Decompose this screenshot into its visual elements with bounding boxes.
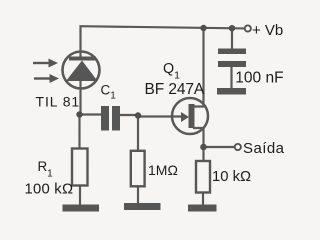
phototransistor cathode bar — [69, 57, 96, 61]
capacitor C1 plates — [101, 106, 109, 131]
ground under R1 — [63, 205, 100, 212]
light arrow 2 — [34, 74, 59, 83]
svg-text:1MΩ: 1MΩ — [148, 162, 178, 178]
wire Vb cap vertical — [231, 28, 233, 49]
wire source node to output — [204, 146, 235, 148]
node A junction dot — [76, 111, 82, 117]
wire drain vertical — [194, 28, 204, 107]
rail junction dot 2 — [229, 25, 235, 31]
ground under 10k — [188, 205, 217, 212]
capacitor 100nF plates — [218, 49, 246, 55]
svg-text:100 kΩ: 100 kΩ — [25, 182, 74, 198]
wire node A to C1 — [80, 113, 103, 115]
wire R1 to ground — [79, 185, 81, 205]
wire phototransistor to node A — [79, 81, 81, 115]
svg-text:Saída: Saída — [243, 140, 285, 157]
wire R2 to ground — [137, 187, 139, 204]
terminal +Vb open circle — [245, 25, 251, 31]
ground under 1M — [124, 203, 161, 210]
resistor R1 body — [72, 149, 88, 186]
wire node B to gate — [138, 115, 183, 117]
resistor 10k body — [196, 161, 210, 193]
svg-text:TIL 81: TIL 81 — [36, 94, 81, 110]
node B junction dot — [135, 112, 141, 118]
phototransistor triangle — [66, 61, 98, 82]
svg-text:BF 247A: BF 247A — [145, 81, 205, 98]
source node junction dot — [200, 144, 207, 151]
wire cap to ground — [230, 66, 232, 89]
light arrow 1 — [33, 59, 58, 68]
svg-text:10 kΩ: 10 kΩ — [212, 169, 251, 185]
terminal Saida open circle — [235, 144, 241, 150]
phototransistor TIL81 circle — [63, 52, 100, 89]
transistor Q1 circle — [172, 98, 208, 134]
svg-text:100 nF: 100 nF — [235, 70, 283, 87]
wire node B to R2 — [137, 115, 139, 152]
wire top rail — [81, 26, 245, 57]
transistor channel bar — [189, 104, 195, 128]
wire C1 to node B — [120, 114, 138, 116]
transistor gate arrow — [181, 112, 189, 122]
wire R3 to ground — [202, 192, 204, 205]
wire node A to R1 — [78, 115, 80, 150]
rail junction dot 1 — [200, 25, 206, 31]
ground under 100nF — [217, 88, 246, 95]
resistor 1M body — [131, 151, 145, 187]
svg-text:+ Vb: + Vb — [252, 22, 283, 39]
wire source to node — [194, 128, 204, 161]
